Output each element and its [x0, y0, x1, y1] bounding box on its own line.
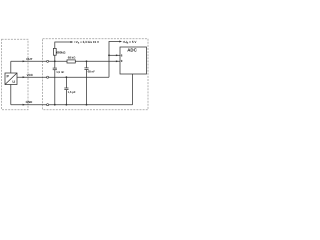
signal conditioning dashed box [43, 39, 148, 110]
wire +UB rail from VCC line up [109, 42, 120, 78]
node UB rail / ADC ref tap [108, 54, 110, 56]
terminal circle GND [47, 104, 49, 106]
wire C3 to ground bus [65, 90, 67, 105]
svg-text:VCC: VCC [27, 73, 34, 77]
arrowhead GND [23, 104, 26, 106]
wire GND pin down from sensor [10, 85, 12, 105]
svg-text:1,5 nF: 1,5 nF [56, 70, 64, 74]
svg-text:680kΩ: 680kΩ [56, 50, 66, 54]
arrowhead OUT [23, 60, 26, 62]
ADC box [120, 47, 147, 74]
arrowhead supply UB [119, 41, 122, 43]
wire ADC reference input line [109, 54, 120, 56]
pressure transducer P/U [5, 73, 17, 85]
node C2/GND junction [86, 104, 88, 106]
svg-text:1,5 µF: 1,5 µF [68, 90, 76, 94]
capacitor 1.5 nF [53, 68, 57, 70]
node C1/GND junction [54, 104, 56, 106]
svg-text:OUT: OUT [26, 57, 33, 61]
node C2/OUT junction [86, 60, 88, 62]
capacitor 68 nF [84, 68, 88, 70]
wire OUT line right segment [75, 60, 120, 62]
resistor 68 kOhm [67, 60, 75, 63]
wire OUT pin up from sensor [10, 61, 12, 73]
svg-text:ADC: ADC [127, 48, 137, 53]
arrowhead supply VS [71, 41, 74, 43]
wire R1 bottom to OUT node [54, 55, 56, 61]
node C3/VCC junction [66, 76, 68, 78]
node C3/GND junction [66, 104, 68, 106]
svg-text:GND: GND [26, 100, 34, 104]
node R1/OUT junction [54, 60, 56, 62]
terminal circle VCC [47, 76, 49, 78]
wire ADC ground pin [132, 74, 134, 105]
svg-text:+UB = 5 V: +UB = 5 V [123, 40, 138, 45]
arrowhead VCC [23, 76, 26, 78]
capacitor 1.5 uF [64, 88, 68, 90]
svg-text:68 nF: 68 nF [88, 70, 96, 74]
svg-text:+VS = 3,3 bis 15 V: +VS = 3,3 bis 15 V [74, 40, 99, 45]
wire OUT node to capacitor C2 [86, 61, 88, 68]
wire R1 top to supply rail [55, 42, 71, 48]
wire VCC line [17, 76, 109, 78]
arrowhead ADC ref input [116, 54, 119, 56]
svg-text:U: U [12, 80, 15, 84]
wire GND bus [11, 104, 133, 106]
resistor 680 kOhm [53, 48, 56, 55]
wire OUT line left segment [11, 60, 67, 62]
terminal circle OUT [47, 60, 49, 62]
wire VCC node to capacitor C3 [65, 77, 67, 88]
svg-text:68 kΩ: 68 kΩ [68, 56, 76, 60]
wire C1 to ground bus [54, 70, 56, 105]
wire C2 to ground bus [86, 70, 88, 105]
wire OUT node to capacitor C1 [54, 61, 56, 68]
arrowhead ADC signal input [116, 60, 119, 62]
sensor module dashed box [2, 39, 28, 110]
